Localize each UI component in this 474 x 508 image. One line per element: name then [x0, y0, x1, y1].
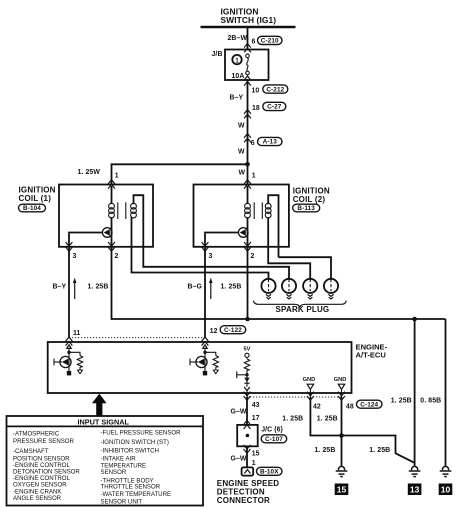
svg-text:10A: 10A	[232, 73, 245, 80]
coil 1 pin 3	[73, 253, 77, 260]
svg-text:W: W	[238, 123, 245, 130]
svg-text:-WATER TEMPERATURE: -WATER TEMPERATURE	[101, 491, 172, 498]
coil 2 secondary winding	[265, 203, 271, 218]
ECU pin 11	[73, 330, 81, 337]
spark plug 4	[324, 279, 338, 299]
ECU GND label pin 48	[334, 377, 347, 383]
svg-text:6: 6	[251, 140, 255, 147]
wire label B-Y	[230, 95, 244, 102]
ECU GND symbol pin 42	[307, 384, 313, 397]
input signal box	[7, 416, 204, 506]
svg-text:SENSOR UNIT: SENSOR UNIT	[101, 498, 143, 505]
svg-text:C-212: C-212	[266, 86, 284, 93]
wire label 1.25B	[282, 415, 303, 422]
wire coil 2 secondary bottom to spark plug 3	[268, 217, 310, 279]
coil 1 core	[118, 202, 126, 219]
ignition coil 1 label	[19, 185, 56, 203]
ECU ignition driver 1 (transistor, resistor)	[54, 345, 83, 376]
junction to ground 13 branch	[412, 317, 417, 322]
svg-text:ANGLE SENSOR: ANGLE SENSOR	[13, 495, 62, 502]
J/C pin 17	[252, 415, 260, 422]
svg-text:10: 10	[252, 88, 260, 95]
svg-text:-CAMSHAFT: -CAMSHAFT	[13, 448, 49, 455]
chevrons ECU pin 42	[307, 392, 314, 401]
input signal list left column	[13, 431, 80, 503]
svg-text:G–W: G–W	[231, 455, 247, 462]
connector C-212	[263, 85, 288, 93]
junction at ground 15 wire	[339, 433, 344, 438]
svg-text:15: 15	[252, 450, 260, 457]
svg-text:11: 11	[73, 330, 81, 337]
svg-text:GND: GND	[303, 377, 316, 383]
svg-text:1. 25W: 1. 25W	[78, 169, 101, 176]
coil 2 pin 2	[251, 253, 255, 260]
svg-text:G–W: G–W	[231, 409, 247, 416]
svg-text:-IGNITION SWITCH (ST): -IGNITION SWITCH (ST)	[101, 439, 169, 446]
J/C pin 15	[252, 450, 260, 457]
svg-text:B-104: B-104	[23, 205, 41, 212]
wire A-13 to node A	[247, 141, 249, 164]
svg-text:B–Y: B–Y	[230, 95, 244, 102]
chevrons J/C pin 17	[244, 420, 251, 429]
wire coil 1 secondary bottom to spark plug 1	[132, 217, 269, 279]
pin 6 of A-13	[251, 140, 255, 147]
svg-text:1. 25B: 1. 25B	[391, 397, 412, 404]
wire label B-G	[188, 284, 202, 291]
wire label G-W	[231, 455, 247, 462]
coil 1 secondary winding	[131, 203, 137, 218]
ground 13	[408, 466, 422, 495]
wire ground rail to ground 13	[414, 319, 416, 467]
svg-text:2: 2	[251, 253, 255, 260]
wire junction to ground 13	[342, 436, 415, 463]
wire coil 1 pin 3 to ECU pin 11 (B-Y 1.25B)	[68, 247, 70, 338]
engine speed detection connector symbol	[242, 467, 254, 475]
wire node A to ignition coil 2	[247, 164, 249, 184]
svg-text:42: 42	[313, 403, 321, 410]
fuse symbol (element between terminals)	[246, 54, 250, 75]
svg-text:B–Y: B–Y	[53, 283, 67, 290]
coil 2 pin 1	[252, 173, 256, 180]
coil 1 pin 2	[115, 253, 119, 260]
spark plug brace	[254, 301, 347, 308]
connector chevrons at J/B entry	[244, 43, 251, 52]
svg-text:6: 6	[252, 39, 256, 46]
wire label 1.25W	[78, 169, 101, 176]
connector B-104	[19, 204, 46, 212]
J/C label	[261, 427, 283, 434]
engine A/T ECU box	[48, 342, 352, 393]
svg-text:48: 48	[346, 403, 354, 410]
ECU GND label pin 42	[303, 377, 316, 383]
wire label 1.25B	[391, 397, 412, 404]
svg-text:1. 25B: 1. 25B	[221, 284, 242, 291]
svg-text:J/C (6): J/C (6)	[261, 427, 283, 434]
node A junction	[245, 162, 250, 167]
svg-text:17: 17	[252, 415, 260, 422]
chevrons ECU pin 48	[338, 392, 345, 401]
wire label 1.25B	[221, 284, 242, 291]
svg-text:1. 25B: 1. 25B	[282, 415, 303, 422]
coil 2 pin 3	[209, 253, 213, 260]
ECU pin 12	[210, 328, 218, 335]
wire label B-Y	[53, 283, 67, 290]
connector C-124	[357, 400, 383, 408]
connector C-210	[258, 36, 283, 44]
svg-text:B–G: B–G	[188, 284, 202, 291]
svg-text:1. 25B: 1. 25B	[317, 415, 338, 422]
svg-text:2B–W: 2B–W	[228, 35, 248, 42]
pin 6	[252, 39, 256, 46]
svg-text:3: 3	[73, 253, 77, 260]
svg-text:THROTTLE SENSOR: THROTTLE SENSOR	[101, 484, 161, 491]
svg-text:43: 43	[252, 402, 260, 409]
coil 1 secondary top wire	[134, 195, 144, 247]
svg-text:5V: 5V	[244, 346, 251, 352]
input signal arrow to ECU	[92, 394, 107, 416]
svg-text:1: 1	[252, 173, 256, 180]
chevrons ECU pin 12	[202, 337, 209, 346]
coil 2 primary winding	[245, 186, 251, 228]
ECU pin 43	[252, 402, 260, 409]
svg-text:3: 3	[209, 253, 213, 260]
connector chevrons at J/B exit	[244, 76, 251, 86]
svg-text:B-113: B-113	[297, 205, 315, 212]
svg-text:INPUT SIGNAL: INPUT SIGNAL	[78, 417, 130, 426]
wire label 1.25B	[88, 284, 109, 291]
svg-text:PRESSURE SENSOR: PRESSURE SENSOR	[13, 438, 75, 445]
coil 2 core	[254, 202, 262, 219]
junction block J/B box	[225, 50, 269, 81]
wire label 1.25B	[317, 415, 338, 422]
connector C-107	[261, 435, 287, 443]
J/B label	[212, 51, 223, 58]
wire coil 1 pin 2 to ground rail	[112, 247, 446, 319]
fuse number badge 1	[232, 55, 241, 64]
wire label W	[239, 169, 246, 176]
wire label W	[238, 148, 245, 155]
ignition coil 2 box	[194, 185, 289, 247]
svg-text:1: 1	[115, 173, 119, 180]
pin 1	[252, 460, 256, 467]
pin 18	[252, 105, 260, 112]
ignition coil 2 label	[293, 186, 330, 204]
coil 1 transistor Q1	[102, 228, 112, 247]
wire label 0.85B	[420, 397, 441, 404]
wire label 1.25B	[369, 447, 390, 454]
chevrons J/C pin 15	[244, 445, 251, 453]
svg-text:0. 85B: 0. 85B	[420, 397, 441, 404]
coil 1 pin 1	[115, 173, 119, 180]
ECU 5V label	[244, 346, 251, 352]
chevrons coil 1 pin 1	[108, 180, 115, 189]
svg-text:C-27: C-27	[267, 104, 282, 111]
chevrons coil 1 pin 2	[108, 242, 115, 251]
svg-text:W: W	[238, 148, 245, 155]
coil 1 primary winding	[109, 186, 115, 228]
spark plug 2	[282, 279, 296, 299]
wire ECU pin 43 to J/C (G-W)	[246, 397, 248, 425]
wire label 2B-W	[228, 35, 248, 42]
svg-text:SWITCH (IG1): SWITCH (IG1)	[221, 15, 277, 25]
wire ECU pin 48 to ground 15	[341, 397, 343, 467]
svg-text:GND: GND	[334, 377, 347, 383]
wire ground rail to ground 10 (0.85B)	[445, 319, 447, 467]
svg-text:CONNECTOR: CONNECTOR	[217, 496, 270, 505]
joint connector J/C(6) box	[237, 425, 258, 446]
svg-text:SPARK PLUG: SPARK PLUG	[276, 305, 330, 314]
wire coil 2 pin 2 to ground rail	[247, 247, 249, 319]
ECU connector dotted line pins 43-48	[247, 396, 342, 398]
wire coil 2 secondary top to spark plug 4	[279, 257, 332, 279]
svg-text:J/B: J/B	[212, 51, 223, 58]
svg-text:B-10X: B-10X	[260, 468, 279, 475]
ground 10	[439, 466, 453, 495]
svg-text:-INHIBITOR SWITCH: -INHIBITOR SWITCH	[101, 448, 159, 455]
svg-text:A/T-ECU: A/T-ECU	[356, 351, 387, 360]
ignition switch supply bus	[201, 26, 296, 29]
wire coil 2 pin 3 to ECU pin 12 (B-G 1.25B)	[204, 247, 206, 338]
svg-text:2: 2	[115, 253, 119, 260]
spark plug 3	[303, 279, 317, 299]
svg-text:C-210: C-210	[261, 38, 279, 45]
svg-text:COIL (1): COIL (1)	[19, 194, 52, 203]
svg-text:-FUEL PRESSURE SENSOR: -FUEL PRESSURE SENSOR	[101, 430, 182, 437]
chevrons coil 2 pin 1	[244, 180, 251, 189]
wire label G-W	[231, 409, 247, 416]
svg-text:1. 25B: 1. 25B	[88, 284, 109, 291]
wire J/B to C-212	[247, 80, 249, 100]
wire label 1.25B	[315, 447, 336, 454]
chevrons ECU pin 43	[244, 392, 251, 401]
svg-text:18: 18	[252, 105, 260, 112]
spark plug 1	[261, 279, 275, 299]
svg-text:C-124: C-124	[360, 401, 378, 408]
svg-text:W: W	[239, 169, 246, 176]
current direction arrow	[73, 278, 77, 299]
connector C-122	[220, 326, 246, 334]
wire ignition switch to connector C-210	[247, 27, 249, 50]
ECU connector dotted line pins 11-12	[69, 337, 205, 339]
svg-text:SENSOR: SENSOR	[101, 469, 127, 476]
ignition switch (IG1) label	[221, 6, 277, 25]
svg-text:13: 13	[410, 485, 420, 495]
coil 1 transistor base wire	[69, 233, 103, 247]
coil 2 transistor base wire	[205, 233, 239, 247]
chevrons ECU pin 11	[66, 337, 73, 346]
coil 2 transistor Q2	[238, 228, 248, 247]
input signal title	[78, 417, 130, 426]
input signal list right column	[101, 430, 182, 506]
svg-text:1. 25B: 1. 25B	[369, 447, 390, 454]
connector B-10X	[257, 467, 283, 475]
ignition coil 1 box	[59, 185, 153, 247]
ECU GND symbol pin 48	[338, 384, 344, 397]
spark plug label	[276, 305, 330, 314]
svg-text:-ATMOSPHERIC: -ATMOSPHERIC	[13, 431, 60, 438]
ground 15	[335, 466, 349, 495]
svg-text:12: 12	[210, 328, 218, 335]
wire ECU pin 42 to junction	[310, 397, 341, 436]
wire J/C to engine speed connector (G-W)	[246, 446, 248, 467]
connector B-113	[293, 204, 320, 212]
wire coil 1 secondary top to spark plug 2	[143, 247, 289, 279]
svg-text:C-107: C-107	[265, 436, 283, 443]
wire node A to ignition coil 1 (1.25W)	[112, 164, 248, 184]
svg-text:C-122: C-122	[224, 327, 242, 334]
chevrons coil 1 pin 3	[66, 242, 73, 251]
svg-text:1: 1	[252, 460, 256, 467]
connector C-27	[263, 102, 286, 110]
ECU ignition driver 2 (transistor, resistor)	[190, 345, 219, 376]
chevrons coil 2 pin 2	[244, 242, 251, 251]
ECU pin 48	[346, 403, 354, 410]
connector chevrons C-27	[244, 110, 251, 119]
current direction arrow	[209, 278, 213, 299]
svg-text:A-13: A-13	[263, 139, 278, 146]
coil 2 secondary top wire	[268, 195, 278, 257]
ECU engine speed output circuit	[237, 353, 250, 397]
connector chevrons A-13	[244, 134, 251, 143]
svg-text:15: 15	[337, 485, 347, 495]
wire C-27 to A-13	[247, 100, 249, 141]
svg-text:1. 25B: 1. 25B	[315, 447, 336, 454]
fuse rating 10A	[232, 73, 245, 80]
svg-text:COIL (2): COIL (2)	[293, 195, 326, 204]
chevrons coil 2 pin 3	[202, 242, 209, 251]
ECU label	[356, 342, 388, 359]
junction on ground rail	[245, 317, 250, 322]
connector A-13	[258, 137, 283, 145]
svg-text:10: 10	[441, 485, 451, 495]
pin 10	[252, 88, 260, 95]
wire label W	[238, 123, 245, 130]
engine speed detection connector label	[217, 479, 279, 505]
ECU pin 42	[313, 403, 321, 410]
